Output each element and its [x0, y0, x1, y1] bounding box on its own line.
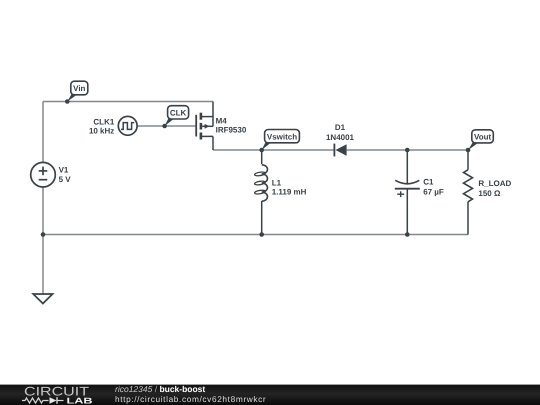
M4 arrow	[205, 124, 210, 129]
svg-text:L1: L1	[272, 178, 282, 187]
wire: R_LOAD top lead	[467, 150, 469, 170]
svg-text:67 µF: 67 µF	[423, 187, 444, 196]
svg-text:Vswitch: Vswitch	[267, 132, 297, 141]
wire: L1 top lead	[261, 150, 263, 164]
svg-text:LAB: LAB	[67, 396, 93, 405]
junction node C1 bottom	[405, 232, 410, 237]
svg-text:IRF9530: IRF9530	[216, 126, 247, 135]
label V1 value	[59, 165, 72, 183]
label C1 value	[423, 177, 444, 196]
transistor M4 (PMOS)	[196, 102, 213, 151]
wire: ground stub	[42, 235, 44, 294]
resistor R_LOAD	[464, 170, 473, 202]
svg-text:Vin: Vin	[73, 84, 85, 93]
wire: left rail bottom (V1 bottom to ground junction)	[42, 187, 44, 235]
junction node bottom-left	[41, 232, 46, 237]
wire: bottom rail	[43, 234, 468, 236]
logo diode	[50, 397, 57, 404]
clock source CLK1	[118, 116, 137, 135]
svg-text:10 kHz: 10 kHz	[89, 127, 114, 136]
label M4 value	[216, 117, 247, 135]
logo resistor zigzag	[22, 398, 49, 403]
svg-text:1.119 mH: 1.119 mH	[272, 188, 307, 197]
node flag Vswitch	[262, 130, 300, 151]
svg-text:CLK1: CLK1	[93, 117, 114, 126]
inductor L1	[254, 165, 267, 201]
svg-text:Vout: Vout	[474, 133, 492, 142]
svg-text:150 Ω: 150 Ω	[478, 189, 501, 198]
wire: left rail top (Vin corner down to V1 top)	[42, 102, 44, 163]
wire: C1 top lead	[406, 150, 408, 185]
wire: top rail from Vin corner to M4 source	[43, 101, 213, 103]
wire: mid rail left segment (M4 drain to D1 cathode)	[213, 149, 334, 151]
svg-text:1N4001: 1N4001	[326, 133, 355, 142]
label L1 value	[272, 178, 307, 196]
junction node C1 top	[405, 148, 410, 153]
svg-text:rico12345 / buck-boost: rico12345 / buck-boost	[115, 384, 205, 394]
label D1 value	[326, 123, 355, 142]
node flag Vout	[468, 130, 493, 150]
label CLK1 value	[89, 117, 115, 135]
diode D1	[334, 144, 346, 157]
svg-text:R_LOAD: R_LOAD	[478, 179, 511, 188]
ground	[33, 294, 52, 304]
junction node L1 bottom	[259, 232, 264, 237]
voltage source V1	[31, 162, 56, 187]
node flag Vin	[65, 81, 88, 104]
capacitor C1 (polarized)	[395, 180, 420, 197]
svg-text:D1: D1	[335, 123, 346, 132]
wire: C1 bottom lead	[406, 189, 408, 235]
svg-text:CLK: CLK	[170, 109, 187, 118]
wire: gate wire CLK1 to M4	[137, 125, 196, 127]
wire: R_LOAD bottom lead	[467, 202, 469, 235]
svg-text:5 V: 5 V	[59, 175, 72, 184]
svg-text:C1: C1	[423, 177, 434, 186]
label R_LOAD value	[478, 179, 511, 198]
wire: mid rail right segment (D1 anode to Vout)	[347, 149, 468, 151]
svg-text:V1: V1	[59, 165, 69, 174]
wire: L1 bottom lead	[261, 201, 263, 235]
junction node Vswitch	[259, 148, 264, 153]
svg-text:http://circuitlab.com/cv62ht8m: http://circuitlab.com/cv62ht8mrwkcr	[115, 394, 266, 404]
svg-text:M4: M4	[216, 117, 228, 126]
junction node Vout	[466, 148, 471, 153]
node flag CLK	[162, 106, 188, 129]
